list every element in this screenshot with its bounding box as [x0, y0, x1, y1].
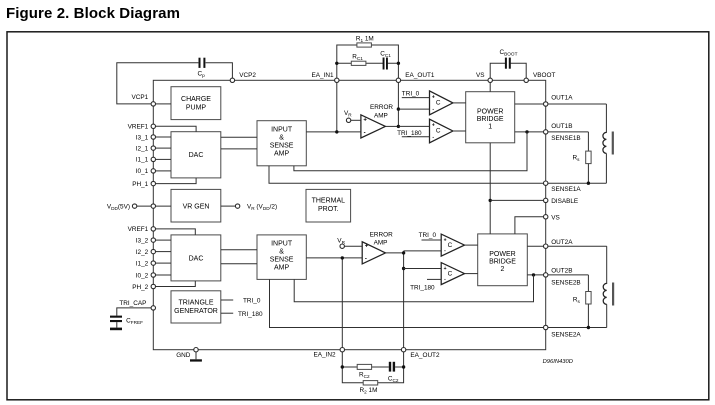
svg-text:SENSE: SENSE	[270, 143, 294, 150]
junction comp2 feed lower	[402, 267, 405, 270]
resistor R2 1M	[360, 381, 378, 395]
svg-text:VREF1: VREF1	[128, 124, 149, 131]
svg-text:DAC: DAC	[189, 152, 204, 159]
capacitor Cp	[198, 58, 206, 78]
wire I0_1	[156, 170, 172, 172]
svg-text:TRI_180: TRI_180	[238, 311, 263, 318]
svg-text:SENSE: SENSE	[270, 257, 294, 264]
wire C2b output	[465, 273, 478, 275]
svg-text:Figure 2. Block Diagram: Figure 2. Block Diagram	[6, 5, 180, 22]
op-amp ERROR AMP 2	[362, 232, 393, 264]
svg-text:DAC: DAC	[189, 255, 204, 262]
wire C2a output	[465, 244, 478, 246]
wire PH_1 to DAC1	[156, 178, 197, 184]
wire TRI_180 into C2b	[410, 279, 441, 291]
wire OUT2A external to coil	[548, 245, 607, 247]
block CHARGE PUMP	[171, 87, 221, 120]
resistor Rs2	[573, 275, 591, 328]
svg-text:PROT.: PROT.	[318, 206, 339, 213]
pin VS right	[544, 214, 560, 221]
capacitor CC1	[380, 51, 391, 70]
junction error 2 output	[402, 251, 405, 254]
svg-text:D96IN430D: D96IN430D	[543, 359, 573, 365]
pin OUT1B / SENSE1B	[544, 123, 581, 142]
wire EA_OUT2 vertical	[403, 251, 405, 350]
svg-text:I1_1: I1_1	[136, 157, 149, 164]
block VR GEN	[171, 189, 221, 222]
svg-text:PH_1: PH_1	[132, 181, 148, 188]
pin SENSE1A	[544, 181, 582, 193]
pin EA_IN1	[311, 72, 339, 82]
svg-text:I2_2: I2_2	[136, 249, 149, 256]
svg-text:THERMAL: THERMAL	[312, 198, 346, 205]
svg-text:ERROR: ERROR	[370, 104, 393, 111]
svg-text:&: &	[279, 135, 284, 142]
terminal VR to error amp 2	[337, 238, 362, 249]
wire RC1 branch	[337, 62, 399, 64]
pin VCP1	[131, 94, 155, 106]
wire EA_IN2 vertical	[341, 258, 343, 350]
pin I0_1	[136, 168, 156, 175]
svg-text:BRIDGE: BRIDGE	[477, 116, 504, 123]
wire OUT1A internal	[515, 103, 546, 105]
svg-text:TRI_0: TRI_0	[402, 90, 420, 97]
wire SENSE2B route to I&S2	[294, 275, 533, 302]
svg-text:+: +	[444, 266, 447, 272]
wire VCP1 loop via Cp	[117, 63, 233, 104]
block INPUT & SENSE AMP 1	[257, 121, 306, 166]
wire CBOOT loop	[490, 63, 526, 78]
junction Rs1 bottom	[587, 182, 590, 185]
svg-text:VS: VS	[476, 72, 485, 79]
svg-text:BRIDGE: BRIDGE	[489, 259, 516, 266]
pin VCP2	[230, 72, 256, 82]
wire VS2 pin to PB2	[515, 217, 546, 234]
wire error amp 1 output	[385, 125, 398, 127]
pin SENSE2A	[544, 325, 582, 338]
svg-text:+: +	[365, 243, 369, 249]
wire VREF1 to DAC1	[156, 126, 197, 131]
svg-text:OUT2B: OUT2B	[551, 267, 572, 274]
svg-text:-: -	[365, 256, 367, 262]
svg-text:1: 1	[488, 124, 492, 131]
wire PH_2 to DAC2	[156, 281, 196, 287]
block TRIANGLE GENERATOR	[171, 291, 221, 323]
wire I1_2	[156, 262, 172, 264]
wire DAC1 out upper	[221, 136, 257, 138]
svg-text:AMP: AMP	[274, 265, 290, 272]
wire TRI_0 stub	[221, 299, 233, 301]
pin GND	[176, 348, 198, 359]
wire I2_2	[156, 251, 172, 253]
svg-text:GND: GND	[176, 352, 191, 359]
pin I3_1	[136, 134, 156, 141]
svg-text:C: C	[436, 128, 441, 135]
svg-text:I3_2: I3_2	[136, 237, 149, 244]
inductor load 1	[603, 104, 613, 183]
capacitor CC2	[388, 362, 399, 383]
block POWER BRIDGE 2	[478, 234, 528, 286]
svg-text:SENSE1B: SENSE1B	[551, 135, 580, 142]
svg-text:-: -	[364, 130, 366, 136]
wire I0_2	[156, 274, 172, 276]
junction right CC1	[397, 62, 400, 65]
svg-text:+: +	[432, 123, 435, 129]
svg-text:I1_2: I1_2	[136, 260, 149, 267]
junction SENSE2B takeoff	[532, 273, 535, 276]
wire EA_IN1 stub up	[337, 45, 399, 80]
wire OUT2B external to Rs2	[548, 274, 588, 276]
svg-text:EA_OUT2: EA_OUT2	[410, 352, 440, 359]
wire VREF2 to DAC2	[156, 229, 196, 235]
svg-text:R2 1M: R2 1M	[360, 387, 378, 395]
svg-text:EA_IN2: EA_IN2	[313, 351, 335, 358]
pin EA_OUT1	[396, 72, 435, 82]
inductor load 2	[603, 246, 613, 327]
comparator C2a	[441, 234, 464, 256]
svg-text:OUT1A: OUT1A	[551, 95, 573, 102]
svg-text:PH_2: PH_2	[132, 284, 148, 291]
wire OUT1B internal	[515, 131, 546, 133]
wire C1b output	[453, 130, 466, 132]
block DAC 1	[171, 132, 221, 178]
svg-text:DISABLE: DISABLE	[551, 198, 578, 205]
IC package boundary	[153, 80, 545, 349]
junction EA_IN2/amp input	[341, 256, 344, 259]
capacitor CBOOT	[500, 49, 518, 69]
wire TRI_CAP to CFREF	[117, 308, 151, 316]
junction Rs2 bottom	[587, 326, 590, 329]
junction comp feed upper	[397, 107, 400, 110]
comparator C1b	[430, 119, 453, 143]
pin VDD bus	[107, 203, 156, 211]
svg-text:R1 1M: R1 1M	[356, 36, 374, 44]
svg-text:VCP2: VCP2	[239, 72, 256, 79]
junction right CC2	[402, 365, 405, 368]
comparator C2b	[441, 263, 464, 285]
svg-text:TRIANGLE: TRIANGLE	[178, 300, 213, 307]
wire OUT1B external to Rs	[548, 131, 588, 133]
ground at GND pin	[190, 352, 202, 362]
svg-text:EA_IN1: EA_IN1	[311, 72, 333, 79]
svg-text:VDD(5V): VDD(5V)	[107, 203, 130, 211]
wire I3_2	[156, 239, 172, 241]
svg-text:I0_1: I0_1	[136, 168, 149, 175]
pin I3_2	[136, 237, 156, 244]
wire VCP1 to charge pump	[156, 103, 172, 105]
svg-text:POWER: POWER	[489, 251, 515, 258]
wire EA_IN2 stub down	[342, 350, 403, 383]
svg-text:C: C	[448, 270, 453, 277]
pin TRI_CAP	[119, 300, 155, 310]
svg-text:TRI_CAP: TRI_CAP	[119, 300, 146, 307]
junction error output	[397, 125, 400, 128]
svg-text:VS: VS	[551, 214, 560, 221]
wire EA_IN1 vertical	[336, 80, 338, 132]
pin I2_1	[136, 145, 156, 152]
wire TRI_0 into C2a	[419, 232, 442, 240]
svg-text:VBOOT: VBOOT	[533, 72, 555, 79]
wire OUT1A external to coil	[548, 103, 606, 105]
resistor RC1	[351, 54, 366, 66]
pin OUT1A	[544, 95, 574, 107]
svg-text:+: +	[432, 94, 435, 100]
svg-text:AMP: AMP	[374, 113, 388, 120]
terminal VDD(5V)	[132, 204, 136, 208]
pin VBOOT	[524, 72, 555, 82]
wire DAC2 out lower	[221, 263, 257, 265]
pin VREF1	[128, 124, 156, 131]
pin PH_2	[132, 284, 155, 291]
svg-text:AMP: AMP	[374, 239, 388, 246]
wire VS1 into PB1	[489, 83, 491, 92]
svg-text:+: +	[363, 118, 367, 124]
svg-text:VCP1: VCP1	[131, 94, 148, 101]
svg-text:INPUT: INPUT	[271, 241, 293, 248]
junction EA_IN1/amp input	[335, 130, 338, 133]
wire to comparator C1a minus	[398, 108, 429, 110]
svg-text:SENSE2A: SENSE2A	[551, 332, 581, 339]
resistor R1 1M	[356, 36, 374, 48]
pin DISABLE	[544, 198, 579, 205]
junction SENSE1B takeoff	[525, 130, 528, 133]
svg-text:PUMP: PUMP	[186, 105, 207, 112]
svg-text:VR GEN: VR GEN	[183, 203, 210, 210]
svg-text:TRI_0: TRI_0	[243, 298, 261, 305]
op-amp ERROR AMP 1	[361, 104, 394, 138]
wire VR GEN output	[221, 205, 236, 207]
wire TRI_0 into C1a	[402, 90, 430, 97]
svg-text:I2_1: I2_1	[136, 145, 149, 152]
wire to comparator C2b plus	[404, 268, 442, 270]
junction DISABLE	[489, 199, 492, 202]
wire SENSE1B route to I&S1	[294, 132, 527, 171]
wire DISABLE rail	[489, 143, 491, 234]
svg-text:INPUT: INPUT	[271, 127, 293, 134]
pin VS top	[476, 72, 492, 82]
svg-text:EA_OUT1: EA_OUT1	[405, 72, 435, 79]
pin I1_1	[136, 157, 156, 164]
pin EA_OUT2	[401, 348, 440, 360]
svg-text:C: C	[436, 99, 441, 106]
svg-text:I3_1: I3_1	[136, 134, 149, 141]
wire I3_1	[156, 136, 172, 138]
wire EA_OUT1 vertical	[397, 80, 399, 126]
block DAC 2	[171, 235, 221, 281]
resistor RC2	[357, 364, 371, 379]
svg-text:CHARGE: CHARGE	[181, 96, 211, 103]
svg-text:+: +	[444, 237, 447, 243]
wire I2_1	[156, 147, 172, 149]
svg-text:TRI_180: TRI_180	[397, 130, 422, 137]
svg-text:TRI_180: TRI_180	[410, 284, 435, 291]
capacitor CFREF	[110, 316, 143, 331]
junction left RC2	[341, 365, 344, 368]
terminal VR output	[235, 204, 239, 208]
block POWER BRIDGE 1	[466, 92, 515, 143]
svg-text:TRI_0: TRI_0	[419, 232, 437, 239]
svg-text:SENSE2B: SENSE2B	[551, 279, 580, 286]
wire SENSE1A route	[269, 166, 606, 183]
pin I1_2	[136, 260, 156, 267]
pin I0_2	[136, 272, 156, 279]
terminal VR to error amp 1	[344, 110, 361, 123]
wire I&S1 output to error amp	[306, 131, 361, 133]
wire VDD(5V) input	[137, 205, 171, 207]
wire SENSE2A route	[270, 279, 607, 327]
comparator C1a	[430, 91, 453, 115]
wire TRI_180 stub	[221, 312, 233, 314]
wire DAC1 out lower	[221, 148, 257, 150]
wire I&S2 output to error amp 2	[306, 257, 362, 259]
wire RC2 branch	[342, 366, 403, 368]
wire error amp 2 output	[386, 252, 404, 254]
wire OUT2A internal	[527, 245, 545, 247]
pin PH_1	[132, 181, 155, 188]
pin I2_2	[136, 249, 156, 256]
svg-text:C: C	[448, 242, 453, 249]
pin EA_IN2	[313, 348, 344, 359]
wire TRI_180 into C1b	[397, 130, 429, 137]
junction left RC1	[335, 62, 338, 65]
wire DAC2 out upper	[221, 249, 257, 251]
block THERMAL PROT.	[306, 189, 351, 222]
pin OUT2A	[544, 239, 574, 249]
block INPUT & SENSE AMP 2	[257, 235, 306, 280]
wire OUT2B internal	[527, 274, 545, 276]
svg-text:OUT2A: OUT2A	[551, 239, 573, 246]
svg-text:GENERATOR: GENERATOR	[174, 308, 218, 315]
pin VREF2	[128, 226, 156, 233]
svg-text:OUT1B: OUT1B	[551, 123, 572, 130]
svg-text:VREF1: VREF1	[128, 226, 149, 233]
pin OUT2B / SENSE2B	[544, 267, 581, 286]
wire to comparator C2a minus	[404, 250, 442, 252]
svg-text:&: &	[279, 249, 284, 256]
svg-text:AMP: AMP	[274, 151, 290, 158]
svg-text:2: 2	[501, 266, 505, 273]
wire I1_1	[156, 158, 172, 160]
svg-text:POWER: POWER	[477, 109, 503, 116]
svg-text:I0_2: I0_2	[136, 272, 149, 279]
wire C1a output	[453, 102, 466, 104]
wire to comparator C1b plus	[398, 125, 429, 127]
svg-text:ERROR: ERROR	[370, 232, 393, 239]
wire DISABLE pin	[490, 199, 546, 201]
svg-text:SENSE1A: SENSE1A	[551, 186, 581, 193]
resistor Rs1	[573, 132, 592, 183]
